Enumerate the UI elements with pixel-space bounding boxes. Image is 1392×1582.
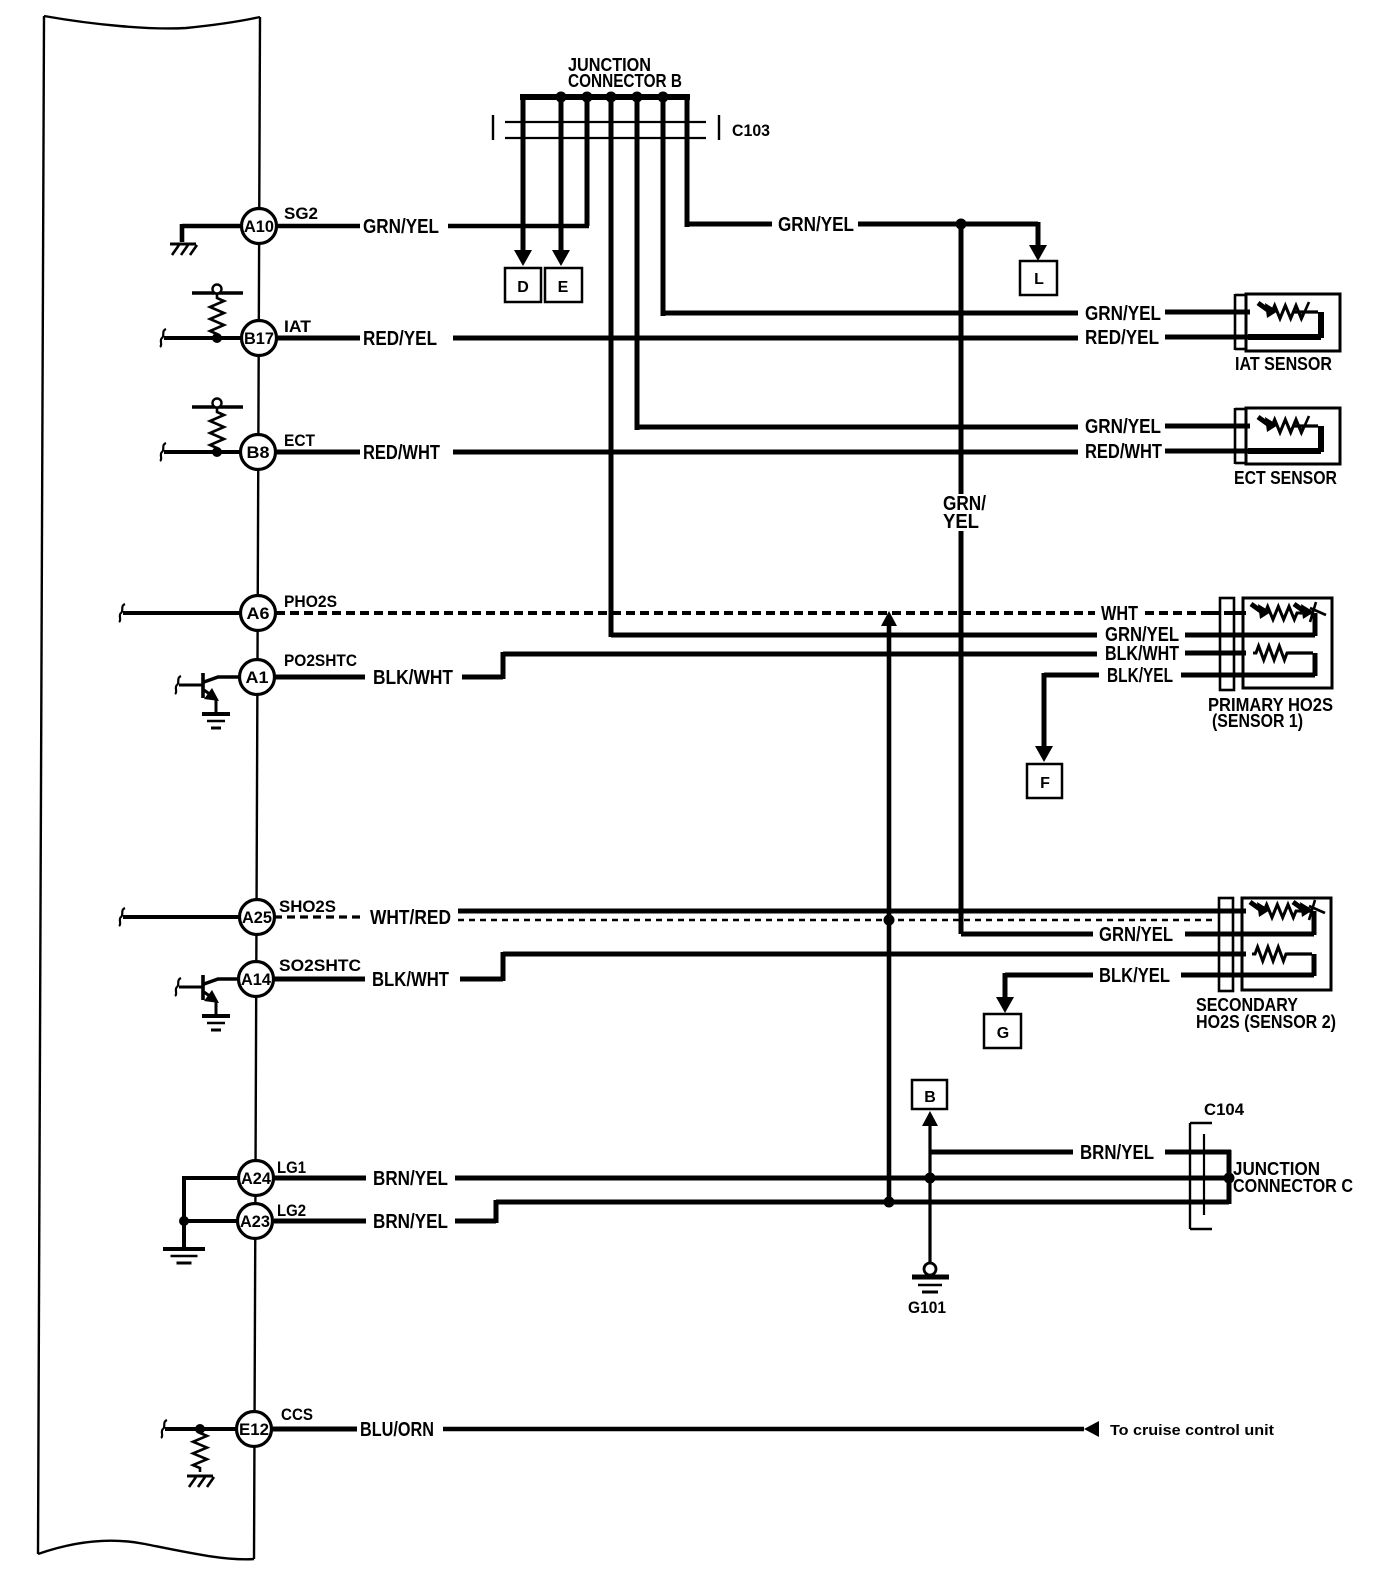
svg-text:BLK/YEL: BLK/YEL — [1099, 965, 1170, 987]
svg-text:LG1: LG1 — [277, 1158, 306, 1177]
svg-text:SO2SHTC: SO2SHTC — [279, 956, 361, 975]
svg-text:IAT SENSOR: IAT SENSOR — [1235, 354, 1332, 374]
svg-text:BLK/WHT: BLK/WHT — [1105, 643, 1179, 665]
svg-text:RED/WHT: RED/WHT — [363, 442, 440, 464]
svg-text:GRN/YEL: GRN/YEL — [778, 214, 854, 236]
svg-text:B17: B17 — [244, 329, 274, 348]
svg-text:L: L — [1034, 271, 1044, 288]
svg-text:LG2: LG2 — [277, 1201, 306, 1220]
svg-text:A14: A14 — [241, 970, 272, 989]
svg-text:A24: A24 — [241, 1169, 272, 1188]
svg-text:WHT/RED: WHT/RED — [370, 907, 451, 929]
svg-text:ECT: ECT — [284, 431, 316, 450]
svg-text:BRN/YEL: BRN/YEL — [1080, 1142, 1154, 1164]
svg-text:To cruise control unit: To cruise control unit — [1110, 1422, 1274, 1439]
svg-text:BRN/YEL: BRN/YEL — [373, 1211, 448, 1233]
svg-text:A6: A6 — [247, 604, 270, 623]
svg-text:RED/YEL: RED/YEL — [363, 328, 437, 350]
svg-text:HO2S (SENSOR 2): HO2S (SENSOR 2) — [1196, 1012, 1336, 1032]
svg-text:E12: E12 — [239, 1420, 269, 1439]
svg-text:GRN/YEL: GRN/YEL — [363, 216, 439, 238]
svg-text:B: B — [924, 1089, 936, 1106]
svg-text:C104: C104 — [1204, 1100, 1245, 1119]
svg-text:SHO2S: SHO2S — [279, 897, 336, 916]
svg-text:RED/YEL: RED/YEL — [1085, 327, 1159, 349]
svg-text:G: G — [997, 1025, 1009, 1042]
svg-text:A23: A23 — [240, 1212, 270, 1231]
svg-text:A10: A10 — [244, 217, 274, 236]
svg-text:ECT SENSOR: ECT SENSOR — [1234, 468, 1337, 488]
svg-text:CONNECTOR B: CONNECTOR B — [568, 71, 682, 91]
svg-text:CONNECTOR C: CONNECTOR C — [1233, 1176, 1353, 1196]
svg-text:C103: C103 — [732, 121, 770, 140]
svg-text:A1: A1 — [246, 668, 269, 687]
svg-text:CCS: CCS — [281, 1405, 313, 1424]
svg-text:GRN/YEL: GRN/YEL — [1085, 416, 1161, 438]
svg-text:RED/WHT: RED/WHT — [1085, 441, 1162, 463]
svg-text:E: E — [558, 279, 569, 296]
svg-text:BLK/WHT: BLK/WHT — [372, 969, 449, 991]
svg-text:F: F — [1040, 775, 1050, 792]
svg-text:B8: B8 — [247, 443, 270, 462]
svg-text:YEL: YEL — [943, 511, 979, 533]
svg-text:BLK/WHT: BLK/WHT — [373, 667, 453, 689]
svg-text:GRN/YEL: GRN/YEL — [1085, 303, 1161, 325]
svg-text:(SENSOR 1): (SENSOR 1) — [1212, 711, 1303, 731]
svg-text:PO2SHTC: PO2SHTC — [284, 651, 357, 670]
svg-text:PHO2S: PHO2S — [284, 592, 337, 611]
svg-text:D: D — [517, 279, 529, 296]
svg-text:G101: G101 — [908, 1298, 946, 1317]
svg-text:BLU/ORN: BLU/ORN — [360, 1419, 434, 1441]
svg-text:GRN/YEL: GRN/YEL — [1099, 924, 1173, 946]
svg-text:IAT: IAT — [284, 317, 312, 336]
svg-text:WHT: WHT — [1101, 603, 1138, 625]
svg-text:BRN/YEL: BRN/YEL — [373, 1168, 448, 1190]
svg-text:SG2: SG2 — [284, 204, 318, 223]
svg-text:A25: A25 — [242, 908, 272, 927]
svg-text:BLK/YEL: BLK/YEL — [1107, 665, 1173, 687]
